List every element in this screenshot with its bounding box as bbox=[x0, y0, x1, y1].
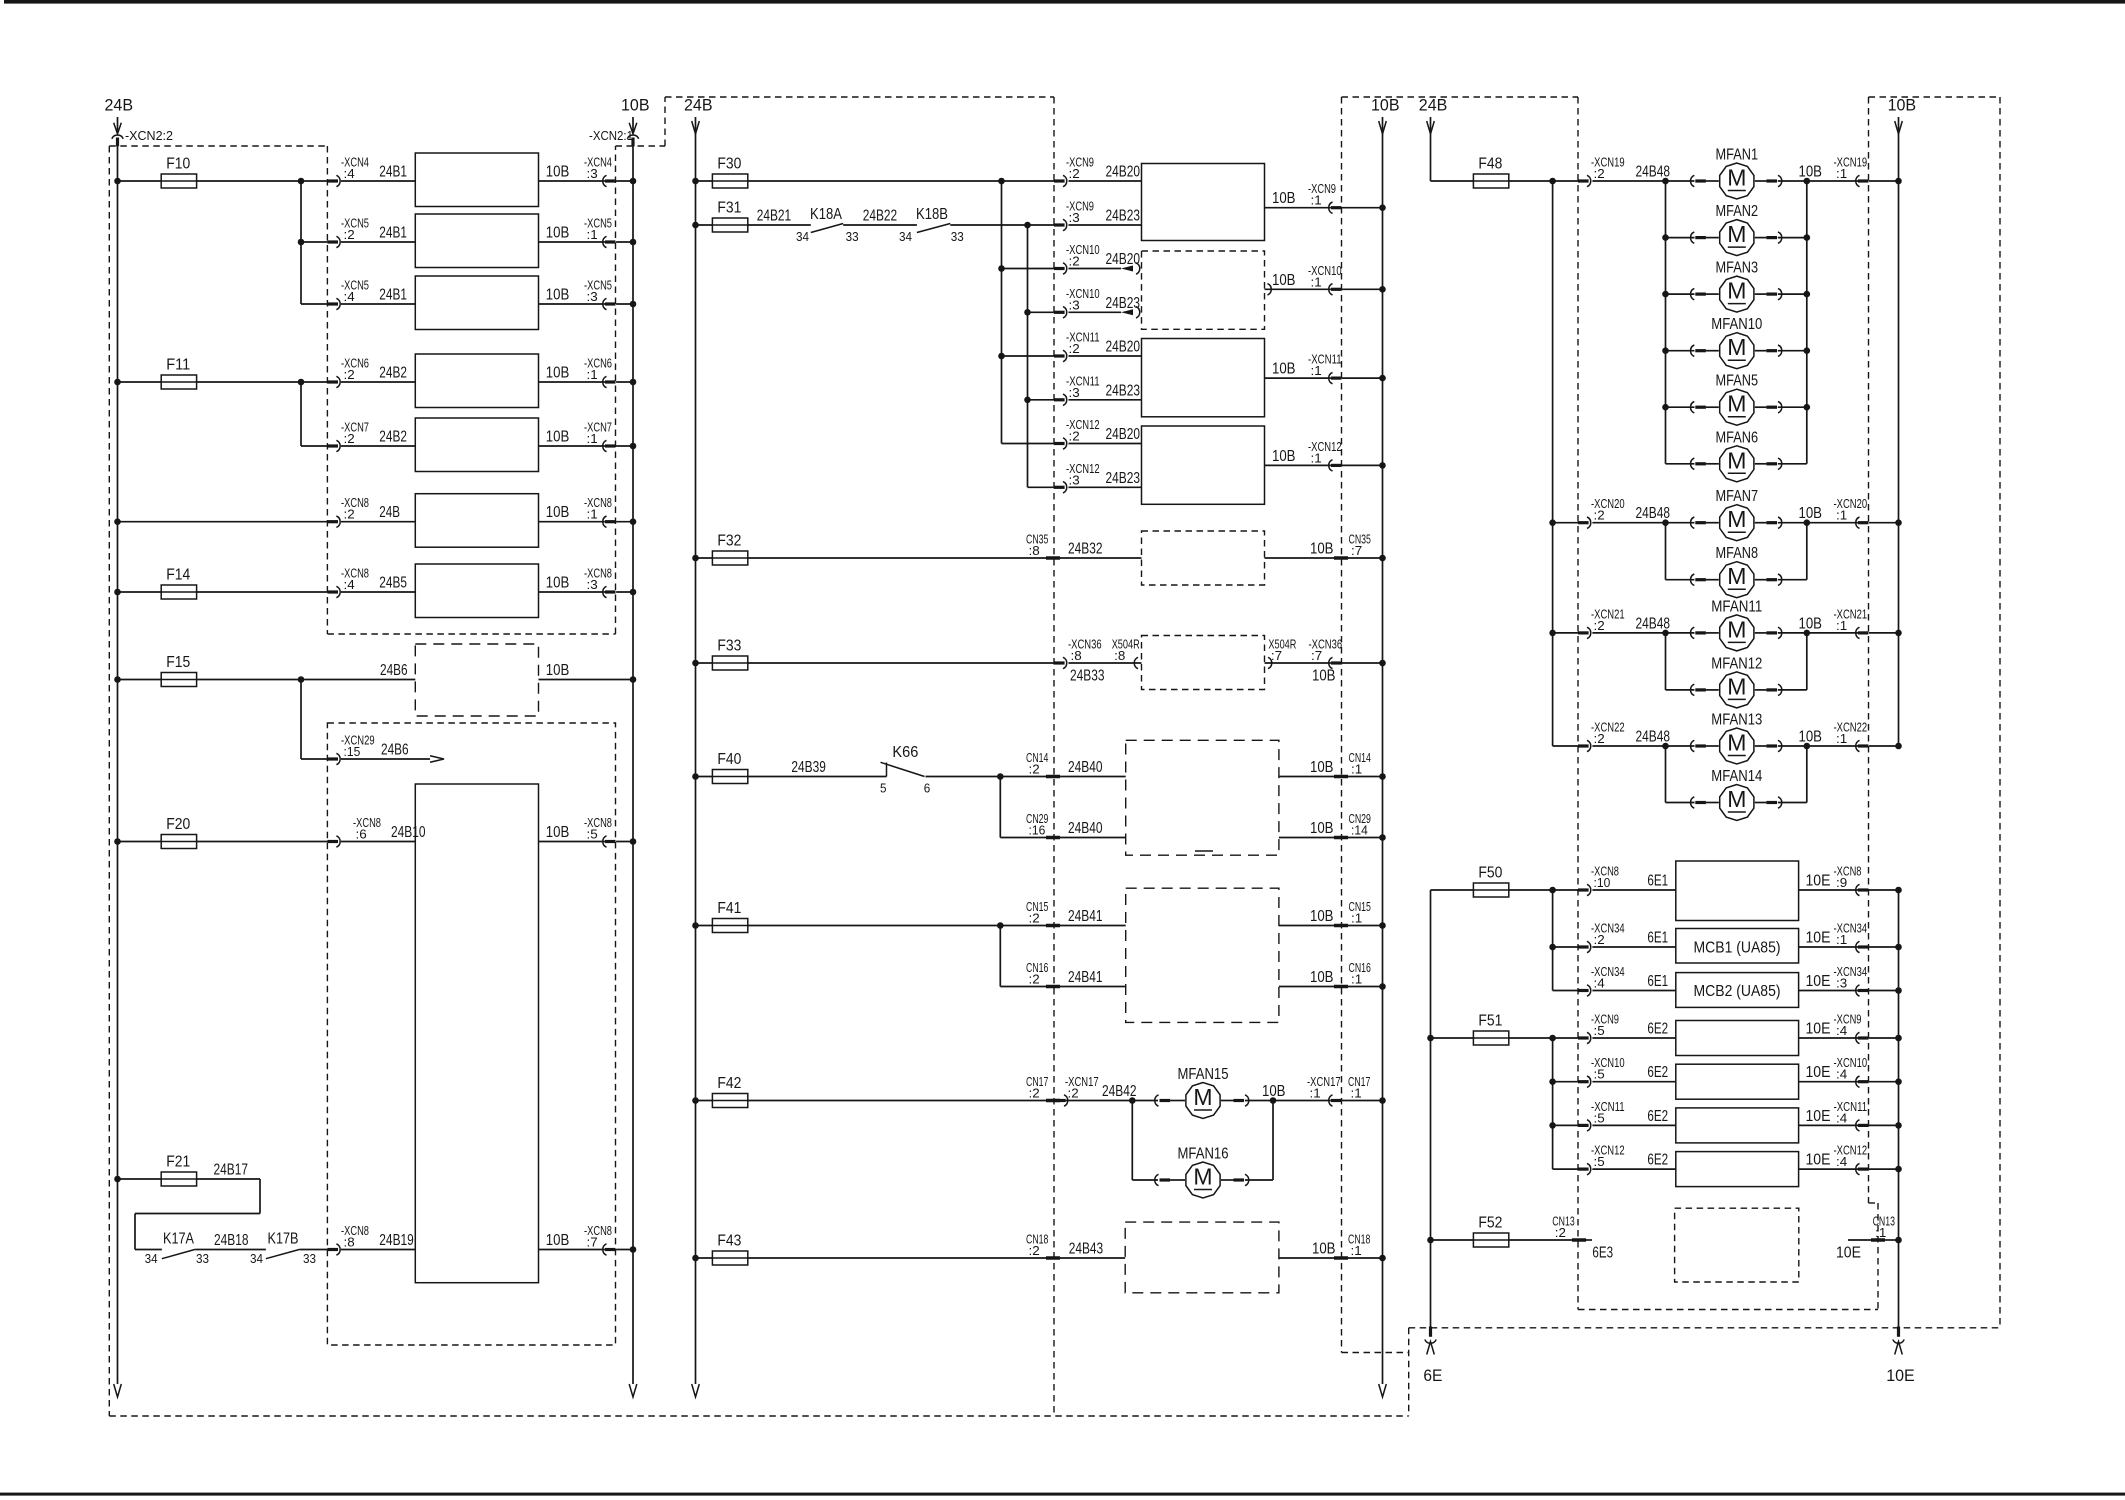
svg-text:10B: 10B bbox=[546, 575, 570, 592]
boundary dashed right-of-middle vertical bbox=[1408, 1328, 1410, 1416]
node feeder -XCN11:2 bbox=[998, 353, 1005, 360]
border bottom line bbox=[0, 1493, 2125, 1496]
svg-text::5: :5 bbox=[1594, 1154, 1605, 1169]
connector at dashed box edge bbox=[1121, 266, 1133, 272]
svg-text:24B23: 24B23 bbox=[1106, 208, 1141, 225]
svg-text:24B: 24B bbox=[105, 96, 134, 115]
connector -XCN29:15 bbox=[327, 757, 338, 760]
svg-text::2: :2 bbox=[1594, 731, 1605, 746]
node feeder 24B20 bbox=[998, 178, 1005, 185]
node bus junction F31 bbox=[692, 222, 699, 229]
svg-text:F10: F10 bbox=[166, 156, 190, 173]
wire connector to 10B bus bbox=[1869, 632, 1899, 634]
svg-text::2: :2 bbox=[1029, 911, 1040, 926]
svg-text:F11: F11 bbox=[166, 357, 190, 374]
bus 24B middle vertical bbox=[695, 117, 697, 1384]
connector -XCN8:6 bbox=[327, 840, 338, 843]
svg-text:6E3: 6E3 bbox=[1592, 1245, 1613, 1262]
wire bus to fuse F11 bbox=[118, 381, 162, 383]
svg-text::8: :8 bbox=[1114, 648, 1125, 663]
motor MFAN15 right lead bbox=[1221, 1100, 1234, 1102]
svg-text::1: :1 bbox=[1836, 731, 1847, 746]
connector -XCN8:9 bbox=[1858, 888, 1869, 891]
fuse F30 bbox=[712, 174, 747, 188]
boundary dashed right section top right bbox=[1869, 96, 2001, 98]
svg-text::7: :7 bbox=[1351, 543, 1362, 558]
connector arc at X504R box right bbox=[1268, 657, 1272, 668]
node fan collector MFAN3 bbox=[1804, 291, 1811, 298]
motor MFAN7 bbox=[1720, 505, 1754, 541]
wire box to terminal CN15:1 bbox=[1279, 925, 1334, 927]
node 10E bus junction -XCN9:4 bbox=[1895, 1035, 1902, 1042]
bus 10B middle bottom arrow bbox=[1379, 1384, 1387, 1397]
node feeder -XCN11:3 bbox=[1024, 397, 1031, 404]
node feeder -XCN10:2 bbox=[998, 265, 1005, 272]
svg-text:MFAN5: MFAN5 bbox=[1716, 373, 1759, 390]
load box 24B5 bbox=[415, 564, 538, 618]
svg-text:K18A: K18A bbox=[810, 206, 842, 223]
wire terminal stub bbox=[1586, 1239, 1592, 1241]
wire connector to 10E bus bbox=[1869, 1037, 1899, 1039]
node 10B bus junction -XCN11:1 bbox=[1379, 375, 1386, 382]
terminal CN29:16 bbox=[1046, 836, 1060, 840]
wire box output -XCN10:1 bbox=[1268, 284, 1272, 295]
motor MFAN10 bbox=[1720, 333, 1754, 369]
connector -XCN19:2 bbox=[1578, 179, 1589, 182]
wire fuse F15 to branch node bbox=[197, 679, 301, 681]
svg-text:33: 33 bbox=[951, 229, 964, 244]
svg-text::1: :1 bbox=[1311, 193, 1322, 208]
connector -XCN17:2 bbox=[1055, 1099, 1066, 1102]
wire connector to X504R box bbox=[1069, 662, 1142, 664]
wire terminal to 10B bus bbox=[1348, 557, 1383, 559]
svg-text:10B: 10B bbox=[546, 1232, 570, 1249]
wire box output -XCN12:1 bbox=[1265, 464, 1331, 466]
boundary dashed top between middle and right bbox=[1342, 96, 1579, 98]
svg-text::4: :4 bbox=[344, 289, 355, 304]
wire connector to MFAN15 bbox=[1064, 1100, 1158, 1102]
motor MFAN14 right lead bbox=[1755, 802, 1767, 804]
wire connector to box bbox=[1592, 1124, 1675, 1126]
fuse F20 bbox=[161, 835, 196, 849]
node 10B bus junction -XCN4:3 bbox=[630, 178, 637, 185]
connector -XCN4:3 bbox=[605, 179, 616, 182]
connector -XCN8:2 bbox=[327, 520, 338, 523]
terminal CN29:14 bbox=[1334, 836, 1348, 840]
connector -XCN6:2 bbox=[327, 380, 338, 383]
svg-text:24B10: 24B10 bbox=[391, 824, 426, 841]
node 10B bus junction -XCN5:1 bbox=[630, 239, 637, 246]
wire load box to connector bbox=[539, 381, 605, 383]
svg-text::8: :8 bbox=[344, 1235, 355, 1250]
connector -XCN34:3 bbox=[1858, 989, 1869, 992]
svg-text:10B: 10B bbox=[546, 429, 570, 446]
svg-text:F41: F41 bbox=[717, 900, 741, 917]
svg-text:34: 34 bbox=[796, 229, 809, 244]
wire branch column F11 group bbox=[300, 382, 302, 446]
connector -XCN8:5 bbox=[605, 840, 616, 843]
svg-text:10B: 10B bbox=[1262, 1083, 1286, 1100]
connector -XCN9:3 bbox=[1054, 223, 1065, 226]
node fan collector -XCN20 bbox=[1804, 519, 1811, 526]
node 10B bus junction CN29:14 bbox=[1379, 834, 1386, 841]
svg-text:10B: 10B bbox=[1272, 190, 1296, 207]
wire terminal to K66 box bbox=[1060, 776, 1126, 778]
wire box to terminal CN29:14 bbox=[1279, 837, 1334, 839]
connector -XCN7:2 bbox=[327, 444, 338, 447]
svg-text:MFAN3: MFAN3 bbox=[1716, 260, 1759, 277]
switch K18A bbox=[811, 224, 843, 233]
svg-text:MCB1 (UA85): MCB1 (UA85) bbox=[1694, 940, 1781, 957]
svg-text:24B: 24B bbox=[684, 96, 713, 115]
svg-text::2: :2 bbox=[1029, 972, 1040, 987]
svg-text::1: :1 bbox=[587, 507, 598, 522]
node 10B bus junction -XCN9:1 bbox=[1379, 204, 1386, 211]
svg-text:34: 34 bbox=[250, 1251, 263, 1266]
wire 6E bus to fuse F50 bbox=[1431, 889, 1474, 891]
wire fuse F10 to branch node bbox=[197, 180, 328, 182]
svg-text:24B1: 24B1 bbox=[379, 287, 407, 304]
connector -XCN10:1 bbox=[1331, 288, 1342, 291]
connector 10E arrow bbox=[1895, 1342, 1903, 1355]
fuse F15 bbox=[161, 673, 196, 687]
motor MFAN1 bbox=[1720, 163, 1754, 199]
svg-text:10B: 10B bbox=[1310, 969, 1334, 986]
svg-text::1: :1 bbox=[1351, 762, 1362, 777]
wire box to connector bbox=[1799, 946, 1858, 948]
wire bus to connector bbox=[118, 521, 328, 523]
wire connector to 10B bus bbox=[1342, 662, 1383, 664]
svg-text:10B: 10B bbox=[1272, 272, 1296, 289]
node 10E bus junction -XCN34:1 bbox=[1895, 944, 1902, 951]
svg-text:33: 33 bbox=[303, 1251, 316, 1266]
node 10B bus junction -XCN5:3 bbox=[630, 301, 637, 308]
wire connector to load box bbox=[341, 591, 415, 593]
wire bus to fuse F31 bbox=[696, 224, 713, 226]
wire fan feed vertical bbox=[1665, 746, 1667, 803]
svg-text::4: :4 bbox=[1836, 1154, 1847, 1169]
motor MFAN7 left lead bbox=[1666, 522, 1695, 524]
wire load box to connector bbox=[539, 180, 605, 182]
boundary dashed top middle bbox=[665, 96, 1054, 98]
wire fuse F32 to terminal CN35:8 bbox=[748, 557, 1046, 559]
wire load box to connector bbox=[539, 303, 605, 305]
boundary dashed middle connector column bbox=[1053, 97, 1055, 1416]
svg-text:6E2: 6E2 bbox=[1647, 1152, 1668, 1169]
wire box to terminal CN16:1 bbox=[1279, 986, 1334, 988]
svg-text::4: :4 bbox=[1836, 1067, 1847, 1082]
connector -XCN9:4 bbox=[1858, 1036, 1869, 1039]
boundary dashed box bottom upper bbox=[327, 633, 615, 635]
node 6E bus junction F52 bbox=[1427, 1237, 1434, 1244]
terminal CN14:1 bbox=[1334, 775, 1348, 779]
connector -XCN8:7 bbox=[605, 1248, 616, 1251]
svg-text:MFAN6: MFAN6 bbox=[1716, 429, 1759, 446]
wire connector to box bbox=[1592, 889, 1675, 891]
svg-text:10B: 10B bbox=[546, 225, 570, 242]
svg-text:6E1: 6E1 bbox=[1647, 930, 1668, 947]
svg-text:M: M bbox=[1727, 165, 1746, 191]
wire collector to connector -XCN17:1 bbox=[1273, 1100, 1331, 1102]
svg-text::4: :4 bbox=[1836, 1110, 1847, 1125]
connector -XCN36:8 bbox=[1054, 661, 1065, 664]
node bus junction F42 bbox=[692, 1097, 699, 1104]
wire 24B6 box to 10B bus bbox=[539, 679, 634, 681]
svg-text::6: :6 bbox=[356, 827, 367, 842]
boundary dashed right section inner bottom bbox=[1578, 1309, 1878, 1311]
wire connector to fan ladder -XCN22 bbox=[1592, 745, 1665, 747]
wire connector to box bbox=[1069, 268, 1122, 270]
wire big box to connector -XCN8:7 bbox=[539, 1249, 605, 1251]
svg-text::2: :2 bbox=[1594, 166, 1605, 181]
boundary dashed right section outer right edge bbox=[1999, 97, 2001, 1328]
connector arc at X504R box left bbox=[1134, 657, 1138, 668]
node fan collector MFAN5 bbox=[1804, 404, 1811, 411]
load box X504R (dashed) bbox=[1142, 636, 1265, 690]
wire fan feed vertical bbox=[1665, 523, 1667, 580]
wire 10B bus top stub bbox=[632, 117, 634, 132]
bus 24B right vertical bbox=[1430, 117, 1432, 181]
node bus junction F15 bbox=[114, 676, 121, 683]
svg-text::1: :1 bbox=[1836, 166, 1847, 181]
wire connector to load box bbox=[341, 180, 415, 182]
svg-text::3: :3 bbox=[1069, 210, 1080, 225]
motor MFAN10 left lead bbox=[1666, 350, 1695, 352]
motor MFAN11 right lead bbox=[1755, 632, 1767, 634]
wire collector to connector -XCN20:1 bbox=[1807, 522, 1858, 524]
fuse F10 bbox=[161, 174, 196, 188]
bus 10B middle top arrow bbox=[1379, 121, 1387, 134]
wire fuse F20 to connector bbox=[197, 841, 328, 843]
wire branch down MFAN16 bbox=[1131, 1101, 1133, 1181]
svg-text:24B19: 24B19 bbox=[379, 1232, 414, 1249]
connector -XCN5:4 bbox=[327, 302, 338, 305]
svg-text:F33: F33 bbox=[717, 638, 741, 655]
connector 10E pin bar bbox=[1897, 1327, 1900, 1337]
motor MFAN15 left lead bbox=[1155, 1095, 1159, 1106]
boundary dashed connector column left upper bbox=[326, 146, 328, 634]
wire box to connector bbox=[1799, 990, 1858, 992]
wire K17A to K17B bbox=[195, 1249, 266, 1251]
svg-text:M: M bbox=[1727, 334, 1746, 360]
wire fuse F50 to connector bbox=[1509, 889, 1578, 891]
svg-text:F32: F32 bbox=[717, 533, 741, 550]
wire connector to fan ladder -XCN21 bbox=[1592, 632, 1665, 634]
wire connector to box bbox=[1069, 399, 1142, 401]
svg-text:24B5: 24B5 bbox=[379, 575, 407, 592]
wire connector to 10E bus bbox=[1869, 1168, 1899, 1170]
svg-text::1: :1 bbox=[1311, 450, 1322, 465]
wire box to connector bbox=[1799, 1081, 1858, 1083]
wire connector to box bbox=[1069, 224, 1142, 226]
wire fuse F48 to connector bbox=[1509, 180, 1578, 182]
svg-text::1: :1 bbox=[1310, 1086, 1321, 1101]
wire connector to box bbox=[1069, 443, 1142, 445]
terminal CN18:2 bbox=[1046, 1256, 1060, 1260]
wire connector to 10B bus bbox=[616, 445, 633, 447]
svg-text:10B: 10B bbox=[1371, 96, 1400, 115]
terminal CN16:2 bbox=[1046, 985, 1060, 989]
svg-text:MFAN12: MFAN12 bbox=[1711, 655, 1762, 672]
svg-text:MFAN8: MFAN8 bbox=[1716, 545, 1759, 562]
svg-text:10E: 10E bbox=[1886, 1366, 1915, 1385]
svg-text:10E: 10E bbox=[1836, 1245, 1861, 1262]
off-page arrow 24B6 bbox=[430, 756, 444, 763]
load box 24B bbox=[415, 494, 538, 548]
svg-text:24B20: 24B20 bbox=[1106, 251, 1141, 268]
motor MFAN11 bbox=[1720, 615, 1754, 651]
svg-text:10B: 10B bbox=[1312, 668, 1336, 685]
wire connector to 10B bus bbox=[1342, 377, 1383, 379]
svg-text:24B: 24B bbox=[379, 504, 400, 521]
wire feeder to connector -XCN10:3 bbox=[1028, 311, 1055, 313]
wire connector to 10B bus bbox=[616, 841, 633, 843]
svg-text:10B: 10B bbox=[1799, 505, 1823, 522]
wire connector to 10B bus bbox=[616, 591, 633, 593]
load box 24B1 bbox=[415, 214, 538, 268]
fuse F14 bbox=[161, 585, 196, 599]
wire fuse F14 to branch node bbox=[197, 591, 328, 593]
node 10B bus junction -XCN21:1 bbox=[1895, 630, 1902, 637]
svg-text:10E: 10E bbox=[1806, 1152, 1831, 1169]
svg-text:34: 34 bbox=[899, 229, 912, 244]
wire X504R box to connector -XCN36:7 bbox=[1265, 662, 1331, 664]
wire fuse F43 to terminal CN18:2 bbox=[748, 1257, 1046, 1259]
bus 24B middle top arrow bbox=[692, 121, 700, 134]
wire connector to 10B bus bbox=[616, 180, 633, 182]
svg-text::7: :7 bbox=[1311, 648, 1322, 663]
wire connector to 10E bus bbox=[1869, 1081, 1899, 1083]
bus 10E vertical bbox=[1898, 890, 1900, 1327]
node bus junction F30 bbox=[692, 178, 699, 185]
terminal CN13:2 bbox=[1572, 1238, 1586, 1242]
motor MFAN11 left lead bbox=[1666, 632, 1695, 634]
connector -XCN34:1 bbox=[1858, 945, 1869, 948]
wire connector to load box bbox=[341, 381, 415, 383]
node fan collector MFAN2 bbox=[1804, 234, 1811, 241]
svg-text:24B20: 24B20 bbox=[1106, 339, 1141, 356]
motor MFAN3 bbox=[1720, 276, 1754, 312]
svg-text:6E2: 6E2 bbox=[1647, 1108, 1668, 1125]
wire collector to connector -XCN21:1 bbox=[1807, 632, 1858, 634]
wire connector to 10B bus bbox=[616, 1249, 633, 1251]
load box 24B6 (dashed) bbox=[415, 644, 538, 716]
connector -XCN34:4 bbox=[1578, 989, 1589, 992]
connector -XCN11:2 bbox=[1054, 354, 1065, 357]
motor MFAN10 right lead bbox=[1755, 350, 1767, 352]
fuse F42 bbox=[712, 1094, 747, 1108]
svg-text:K17B: K17B bbox=[268, 1231, 299, 1248]
wire 6E bus to fuse F52 bbox=[1431, 1239, 1474, 1241]
wire connector to 10B bus bbox=[1342, 207, 1383, 209]
wire box to terminal CN14:1 bbox=[1279, 776, 1334, 778]
connector -XCN2:2 pin bar bbox=[116, 138, 119, 147]
svg-text:24B18: 24B18 bbox=[214, 1232, 249, 1249]
svg-text:10B: 10B bbox=[546, 504, 570, 521]
wire 24B6 off-page bbox=[341, 758, 430, 760]
connector -XCN11:1 bbox=[1331, 377, 1342, 380]
motor MFAN2 left lead bbox=[1666, 237, 1695, 239]
node 10E bus junction -XCN34:3 bbox=[1895, 987, 1902, 994]
wire connector to big box bbox=[341, 1249, 415, 1251]
connector -XCN20:1 bbox=[1858, 521, 1869, 524]
svg-text::3: :3 bbox=[587, 289, 598, 304]
wire connector to 10E bus bbox=[1869, 946, 1899, 948]
svg-text::1: :1 bbox=[587, 227, 598, 242]
wire connector to box bbox=[1592, 1168, 1675, 1170]
svg-text:24B40: 24B40 bbox=[1068, 759, 1103, 776]
bus 24B left bottom arrow bbox=[114, 1384, 122, 1397]
svg-text:10B: 10B bbox=[1310, 820, 1334, 837]
svg-text:10B: 10B bbox=[546, 662, 570, 679]
svg-text:K17A: K17A bbox=[163, 1231, 194, 1248]
svg-text::5: :5 bbox=[1594, 1110, 1605, 1125]
svg-text::2: :2 bbox=[344, 227, 355, 242]
connector -XCN5:2 bbox=[327, 240, 338, 243]
connector -XCN2:1 arrow bbox=[629, 123, 637, 134]
svg-text:MFAN1: MFAN1 bbox=[1716, 147, 1759, 164]
svg-text:K18B: K18B bbox=[916, 206, 948, 223]
node branch CN29 bbox=[997, 773, 1004, 780]
svg-text:M: M bbox=[1193, 1164, 1212, 1190]
wire branch column to connector bbox=[301, 445, 327, 447]
node fan collector MFAN10 bbox=[1804, 347, 1811, 354]
wire load box to connector bbox=[539, 521, 605, 523]
boundary dashed right section bottom channel bbox=[1409, 1327, 2000, 1329]
svg-text::5: :5 bbox=[1594, 1023, 1605, 1038]
motor MFAN12 bbox=[1720, 672, 1754, 708]
wire fuse F11 to branch node bbox=[197, 381, 328, 383]
wire feeder to connector -XCN10:5 bbox=[1553, 1081, 1578, 1083]
load box fan control 2 (dashed) bbox=[1142, 251, 1265, 329]
wire fuse F51 to connector bbox=[1509, 1037, 1578, 1039]
bus 24B middle bottom arrow bbox=[692, 1384, 700, 1397]
wire branch column to connector bbox=[301, 303, 327, 305]
wire K18A to K18B bbox=[843, 224, 917, 226]
svg-text::1: :1 bbox=[1311, 274, 1322, 289]
wire load box to connector bbox=[539, 591, 605, 593]
load box 24B1 bbox=[415, 153, 538, 207]
wire feeder 24B23 vertical bbox=[1027, 225, 1029, 487]
svg-text:10E: 10E bbox=[1806, 973, 1831, 990]
wire fuse F33 to connector -XCN36:8 bbox=[748, 662, 1054, 664]
fuse F48 bbox=[1473, 174, 1508, 188]
load box ECU (big) bbox=[415, 784, 538, 1283]
svg-text:6E1: 6E1 bbox=[1647, 873, 1668, 890]
svg-text::2: :2 bbox=[1069, 341, 1080, 356]
svg-text::10: :10 bbox=[1594, 875, 1611, 890]
wire connector to box bbox=[1592, 990, 1675, 992]
wire collector to connector -XCN22:1 bbox=[1807, 745, 1858, 747]
node 10B bus junction -XCN19:1 bbox=[1895, 178, 1902, 185]
terminal CN18:1 bbox=[1334, 1256, 1348, 1260]
wire connector to 10B bus bbox=[616, 381, 633, 383]
node branch XCN5:2 bbox=[298, 239, 305, 246]
svg-text:24B23: 24B23 bbox=[1106, 470, 1141, 487]
wire collector up MFAN16 bbox=[1272, 1101, 1274, 1181]
wire terminal to 10E bus bbox=[1885, 1239, 1899, 1241]
wire fuse F42 to terminal CN17:2 bbox=[748, 1100, 1046, 1102]
svg-text:24B20: 24B20 bbox=[1106, 164, 1141, 181]
svg-text:6E2: 6E2 bbox=[1647, 1064, 1668, 1081]
fuse F51 bbox=[1473, 1031, 1508, 1045]
boundary dashed bottom jog middle-right bbox=[1342, 1352, 1409, 1354]
terminal CN35:8 bbox=[1046, 556, 1060, 560]
connector -XCN22:2 bbox=[1553, 745, 1578, 747]
svg-text::1: :1 bbox=[1351, 1086, 1362, 1101]
svg-text::2: :2 bbox=[1594, 618, 1605, 633]
connector 6E pin bar bbox=[1429, 1327, 1432, 1337]
